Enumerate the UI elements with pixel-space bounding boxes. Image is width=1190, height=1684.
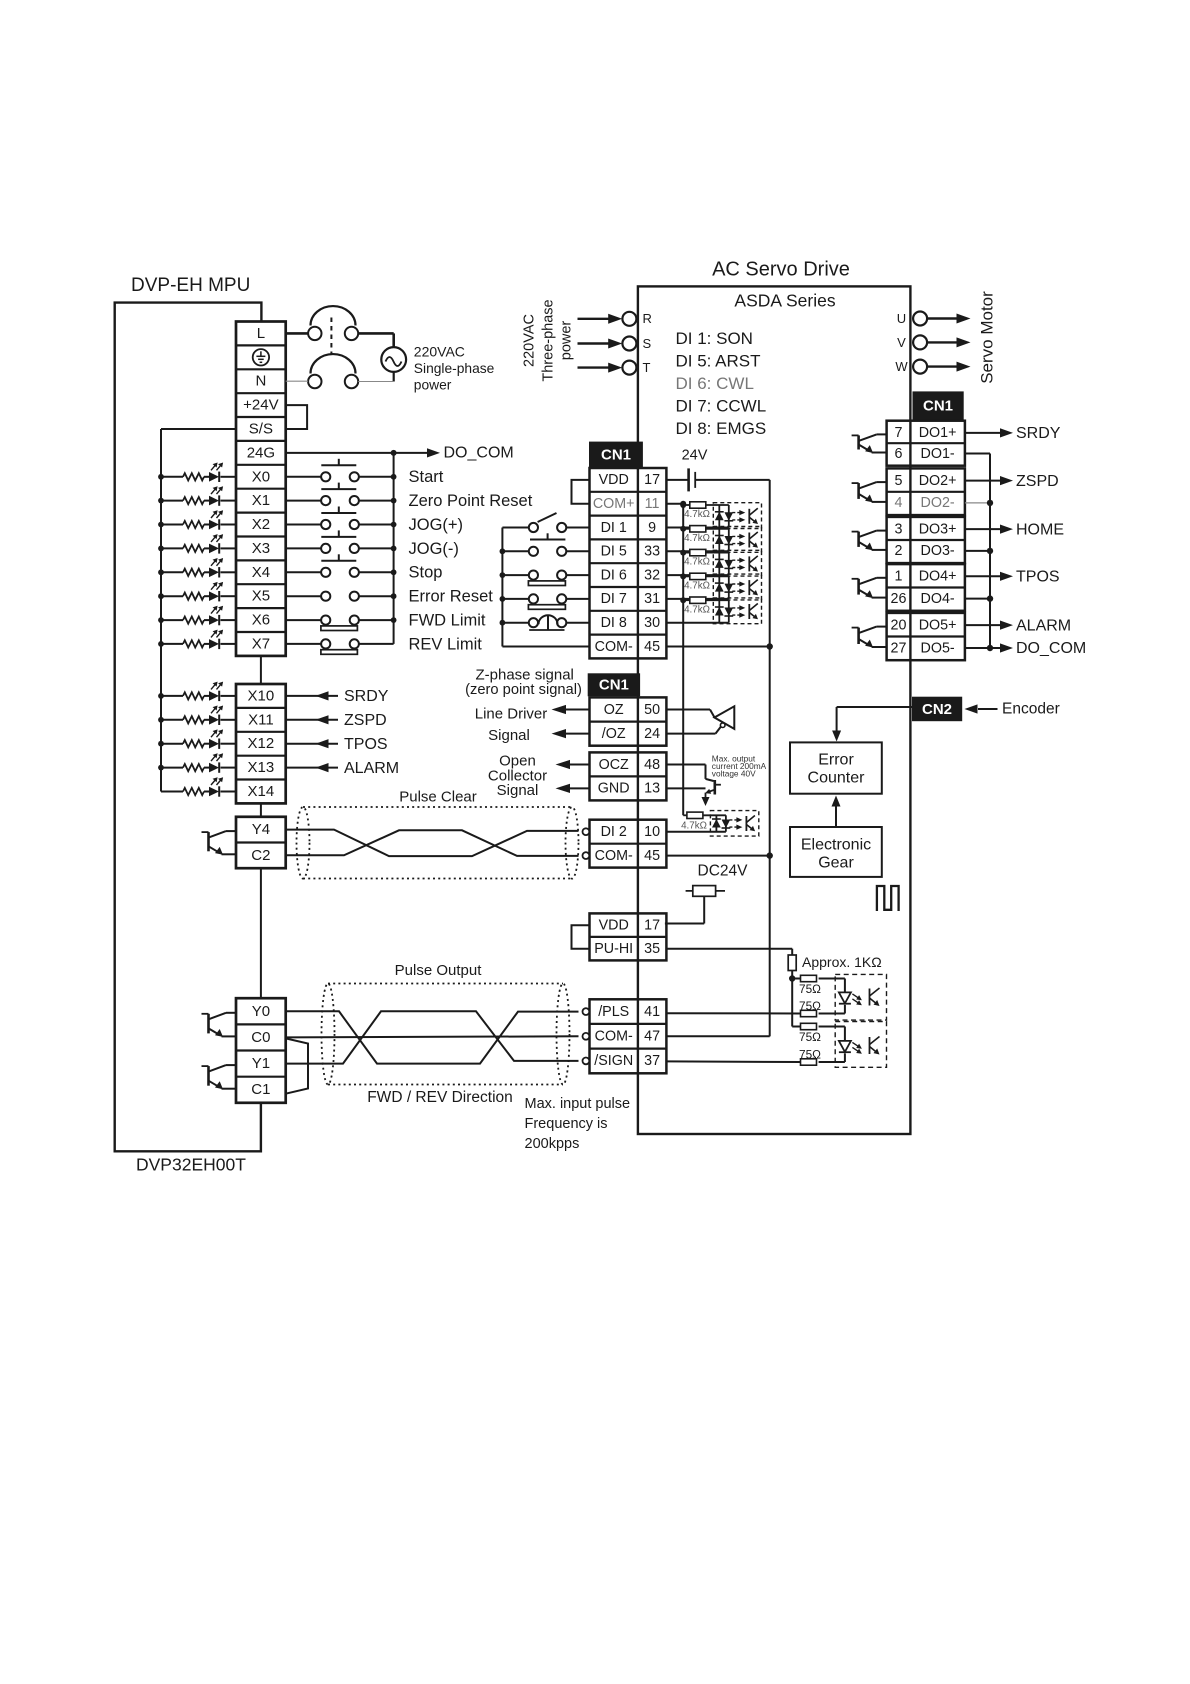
svg-text:/PLS: /PLS: [598, 1004, 629, 1020]
battery 24V symbol: [666, 468, 769, 491]
svg-text:Single-phase: Single-phase: [414, 361, 495, 376]
signal input ALARM to X13: [286, 760, 399, 777]
svg-text:X11: X11: [248, 711, 274, 728]
shield Pulse Clear cable: [297, 807, 579, 879]
signal output HOME: [965, 521, 1064, 538]
switch contact DI 6: [500, 571, 590, 586]
twisted pair wire Y4 to DI2: [286, 830, 579, 857]
pushbutton switch X1 (Zero Point Reset): [286, 483, 397, 506]
wire COM-45 lower to bus: [666, 855, 769, 857]
svg-text:(zero point signal): (zero point signal): [465, 682, 582, 698]
svg-text:Y1: Y1: [252, 1055, 270, 1072]
signal input TPOS to X12: [286, 736, 388, 753]
svg-text:S: S: [643, 336, 652, 351]
svg-text:9: 9: [648, 520, 656, 536]
svg-text:4: 4: [895, 495, 903, 511]
svg-text:AC Servo Drive: AC Servo Drive: [712, 258, 850, 280]
wire N to breaker (faint): [286, 380, 308, 382]
label JOG(+): [409, 516, 464, 534]
svg-text:33: 33: [644, 544, 660, 560]
svg-text:DO4-: DO4-: [921, 591, 955, 607]
svg-text:17: 17: [644, 472, 660, 488]
svg-text:Max. input pulse: Max. input pulse: [525, 1096, 631, 1112]
svg-text:75Ω: 75Ω: [799, 1047, 821, 1061]
svg-text:6: 6: [895, 446, 903, 462]
svg-text:Approx. 1KΩ: Approx. 1KΩ: [802, 954, 882, 970]
resistor R-75 (d): [666, 1047, 821, 1065]
svg-text:45: 45: [644, 639, 660, 655]
svg-text:DO_COM: DO_COM: [1016, 640, 1086, 657]
optocoupler LED SIGN: [839, 1041, 862, 1054]
svg-text:Stop: Stop: [409, 564, 443, 582]
net DO_COM from 24G: [286, 445, 514, 462]
label 220VAC Single-phase power: [414, 344, 495, 393]
wire DO3- to DO_COM bus: [965, 548, 993, 554]
svg-text:4.7kΩ: 4.7kΩ: [684, 533, 710, 544]
svg-text:45: 45: [644, 848, 660, 864]
wire AC source to N (faint): [358, 372, 394, 382]
resistor R-75 (b): [666, 999, 821, 1017]
svg-text:50: 50: [644, 702, 660, 718]
svg-text:DI 1: DI 1: [601, 520, 627, 536]
svg-text:75Ω: 75Ω: [799, 982, 821, 996]
label FWD Limit: [409, 611, 486, 629]
svg-text:Zero Point Reset: Zero Point Reset: [409, 492, 533, 510]
svg-text:ALARM: ALARM: [344, 760, 399, 777]
pushbutton switch X3 (JOG(-)): [286, 530, 397, 553]
transistor Q-Y1 open collector: [202, 1065, 237, 1089]
pushbutton switch X5 (Error Reset): [286, 592, 397, 601]
signal output SRDY: [965, 425, 1061, 442]
label Z-phase signal: [465, 667, 582, 699]
block Electronic Gear: [790, 827, 882, 877]
wire CN2 to Error Counter: [832, 707, 912, 742]
connector CN1 label (input side): [590, 442, 643, 467]
svg-text:220VAC: 220VAC: [521, 314, 537, 367]
twisted pair wire C2 to COM-: [286, 830, 579, 856]
wire DO5- to DO_COM bus: [965, 645, 993, 651]
optocoupler input DI 1 with 4.7kΩ resistor: [666, 502, 761, 529]
power input terminal R: [578, 311, 652, 326]
label DC24V: [698, 863, 749, 880]
transistor Q-DO2: [852, 482, 887, 502]
svg-text:X4: X4: [252, 564, 270, 581]
AC Servo Drive title: [712, 258, 850, 280]
svg-text:/SIGN: /SIGN: [594, 1053, 633, 1069]
svg-text:X10: X10: [248, 687, 275, 704]
svg-text:DO3+: DO3+: [919, 521, 957, 537]
svg-text:REV Limit: REV Limit: [409, 635, 483, 653]
svg-text:41: 41: [644, 1004, 660, 1020]
svg-text:COM-: COM-: [595, 848, 633, 864]
transistor Q-Y4 open collector: [202, 831, 237, 855]
svg-text:30: 30: [644, 615, 660, 631]
svg-text:DI 6: DI 6: [601, 567, 627, 583]
twisted pair wire Y1 to /SIGN: [286, 1011, 579, 1063]
svg-text:U: U: [897, 311, 906, 326]
connector CN1 pins 1 DO4+ / 26 DO4-: [887, 564, 965, 611]
PLC title DVP-EH MPU: [131, 275, 250, 296]
label Max. output current 200mA voltage 40V: [712, 753, 767, 778]
svg-text:DI 8: EMGS: DI 8: EMGS: [676, 419, 767, 438]
connector CN1 pin table OCZ 48 / GND 13: [590, 752, 667, 800]
svg-text:GND: GND: [598, 781, 630, 797]
terminal block X10-X14: [236, 684, 286, 803]
wire COM- 45 to bus: [666, 646, 769, 648]
input LED+resistor X14: [161, 777, 236, 797]
svg-text:T: T: [643, 360, 651, 375]
pushbutton switch X6 (FWD Limit): [286, 616, 397, 631]
svg-text:power: power: [558, 321, 574, 361]
transistor Q-DO5: [852, 627, 887, 648]
transistor Q-DO3: [852, 531, 887, 551]
svg-text:HOME: HOME: [1016, 521, 1064, 538]
svg-text:DO1-: DO1-: [921, 446, 955, 462]
resistor R-75 (c): [799, 1023, 845, 1044]
breaker arc bottom: [311, 354, 356, 373]
input LED+resistor X1: [158, 486, 236, 506]
optocoupler LED PLS: [839, 992, 862, 1005]
svg-text:4.7kΩ: 4.7kΩ: [684, 509, 710, 520]
svg-text:SRDY: SRDY: [1016, 425, 1061, 442]
label Start: [409, 468, 444, 486]
svg-text:COM+: COM+: [593, 496, 635, 512]
transistor Q-OCZ: [666, 765, 721, 795]
arrow Open Collector OCZ: [556, 760, 590, 769]
arrow Electronic Gear to Error Counter: [832, 796, 841, 828]
svg-text:X7: X7: [252, 635, 270, 652]
breaker arc top: [311, 306, 356, 325]
power input terminal T: [578, 360, 651, 375]
pushbutton switch X0 (Start): [286, 459, 397, 482]
svg-text:PU-HI: PU-HI: [594, 941, 633, 957]
AC source 220VAC single-phase: [381, 347, 406, 372]
line driver buffer U-LD: [666, 706, 734, 733]
wire DO4- to DO_COM bus: [965, 595, 993, 601]
label Line Driver Signal: [475, 705, 548, 744]
svg-text:X6: X6: [252, 612, 270, 629]
signal output TPOS: [965, 569, 1060, 586]
pushbutton switch X4 (Stop): [286, 554, 397, 577]
svg-text:SRDY: SRDY: [344, 688, 389, 705]
wire terminal-block interconnects: [260, 656, 262, 998]
wire L to breaker: [286, 332, 308, 335]
svg-text:Pulse Clear: Pulse Clear: [399, 788, 477, 805]
connector CN1 pin table DI2 10 / COM- 45: [583, 820, 667, 868]
svg-text:7: 7: [895, 425, 903, 441]
PLC model label DVP32EH00T: [136, 1154, 246, 1174]
svg-text:Pulse Output: Pulse Output: [395, 962, 483, 979]
svg-text:32: 32: [644, 567, 660, 583]
svg-text:X13: X13: [248, 759, 275, 776]
svg-text:Signal: Signal: [497, 782, 539, 799]
junction 24V bus at COM-45 (CN1 upper): [767, 643, 773, 649]
connector CN1 label (Z-phase): [588, 674, 639, 696]
power input terminal S: [578, 336, 652, 351]
junction 24V bus at COM-45 (lower): [767, 852, 773, 858]
label Stop: [409, 564, 443, 582]
svg-text:17: 17: [644, 917, 660, 933]
transistor Q-Y0 open collector: [202, 1013, 237, 1037]
junction below 1k resistor: [789, 971, 795, 982]
connector CN1 pins 20 DO5+ / 27 DO5-: [887, 613, 965, 660]
svg-text:200kpps: 200kpps: [525, 1136, 580, 1152]
svg-text:2: 2: [895, 543, 903, 559]
pushbutton switch X2 (JOG(+)): [286, 507, 397, 530]
svg-text:24G: 24G: [247, 444, 275, 461]
breaker contact circles bottom: [308, 375, 358, 388]
label REV Limit: [409, 635, 483, 653]
resistor R-75 (a): [792, 975, 845, 996]
svg-text:47: 47: [644, 1029, 660, 1045]
switch contact DI 7: [500, 594, 590, 609]
signal output ALARM: [965, 617, 1071, 634]
connector CN1 pins 5 DO2+ / 4 DO2-: [887, 468, 965, 515]
svg-text:ASDA Series: ASDA Series: [734, 291, 835, 311]
svg-text:DI 6: CWL: DI 6: CWL: [676, 374, 754, 393]
optocoupler box PLS: [835, 974, 886, 1020]
label Open Collector Signal: [488, 752, 547, 799]
input LED+resistor X12: [158, 729, 236, 749]
svg-text:DC24V: DC24V: [698, 863, 749, 880]
svg-text:DI 7: CCWL: DI 7: CCWL: [676, 396, 767, 415]
breaker contact circles top: [308, 327, 358, 340]
input LED+resistor X4: [158, 558, 236, 578]
svg-text:DO3-: DO3-: [921, 543, 955, 559]
svg-text:DO5-: DO5-: [921, 640, 955, 656]
wire S/S common bus: [161, 429, 236, 792]
pushbutton switch X7 (REV Limit): [286, 639, 394, 654]
svg-text:CN2: CN2: [922, 701, 952, 718]
terminal block Y0/C0/Y1/C1: [236, 998, 286, 1103]
label Error Reset: [409, 588, 494, 606]
svg-text:37: 37: [644, 1053, 660, 1069]
svg-text:X3: X3: [252, 540, 270, 557]
svg-text:R: R: [643, 311, 652, 326]
wire COM-47 to 24V bus: [666, 1035, 769, 1037]
breaker dashed link: [330, 318, 332, 355]
svg-text:DO2-: DO2-: [921, 495, 955, 511]
signal input SRDY to X10: [286, 688, 389, 705]
svg-text:4.7kΩ: 4.7kΩ: [681, 820, 707, 831]
motor output terminal U: [897, 311, 971, 326]
transistor Q-DO1: [852, 434, 887, 453]
motor output terminal V: [897, 335, 970, 350]
svg-text:4.7kΩ: 4.7kΩ: [684, 604, 710, 615]
svg-text:TPOS: TPOS: [344, 736, 388, 753]
input LED+resistor X2: [158, 510, 236, 530]
svg-text:N: N: [255, 373, 266, 390]
DI function assignment list: [676, 329, 767, 438]
svg-text:COM-: COM-: [595, 1029, 633, 1045]
DO_COM bus (right): [989, 454, 991, 649]
svg-text:C1: C1: [251, 1081, 270, 1098]
svg-text:DI 1: SON: DI 1: SON: [676, 329, 753, 348]
input LED+resistor X5: [158, 582, 236, 602]
wire C1 tied to C0: [286, 1038, 308, 1093]
svg-text:4.7kΩ: 4.7kΩ: [684, 557, 710, 568]
svg-text:Z-phase signal: Z-phase signal: [476, 667, 574, 684]
resistor R-1k (Approx. 1KΩ): [788, 954, 882, 970]
svg-text:ALARM: ALARM: [1016, 617, 1071, 634]
label 220VAC Three-phase power (rotated): [521, 299, 574, 381]
connector CN1 pins 7 DO1+ / 6 DO1-: [887, 421, 965, 466]
svg-text:X12: X12: [248, 735, 275, 752]
svg-text:4.7kΩ: 4.7kΩ: [684, 580, 710, 591]
pulse train symbol: [877, 886, 899, 911]
svg-text:VDD: VDD: [599, 917, 629, 933]
svg-text:/OZ: /OZ: [602, 726, 626, 742]
svg-text:Start: Start: [409, 468, 444, 486]
svg-text:X2: X2: [252, 516, 270, 533]
connector CN1 pin table /PLS 41 / COM- 47 / /SIGN 37: [583, 999, 667, 1073]
svg-text:DO2+: DO2+: [919, 473, 957, 489]
label 24V: [682, 447, 708, 463]
connector CN1 label (output side): [913, 392, 963, 420]
svg-text:5: 5: [895, 473, 903, 489]
wire DO1- to DO_COM bus: [965, 453, 990, 455]
svg-text:Error Reset: Error Reset: [409, 588, 494, 606]
svg-text:OCZ: OCZ: [599, 757, 629, 773]
svg-text:DO1+: DO1+: [919, 425, 957, 441]
wire 24V return bus (right): [769, 480, 771, 1037]
svg-text:24V: 24V: [682, 447, 708, 463]
wire +24V to S/S jumper: [286, 405, 307, 429]
wire DO2- to DO_COM bus: [965, 500, 993, 506]
shield Pulse Output cable: [322, 984, 570, 1085]
svg-text:220VAC: 220VAC: [414, 344, 465, 360]
svg-text:VDD: VDD: [599, 472, 629, 488]
svg-text:Frequency is: Frequency is: [525, 1116, 608, 1132]
signal output DO_COM: [990, 640, 1086, 657]
label Pulse Clear: [399, 788, 477, 805]
connector CN1 pin table VDD/COM+/DI1-DI8/COM-: [590, 468, 667, 658]
label Servo Motor (rotated): [977, 291, 996, 384]
svg-text:Electronic: Electronic: [801, 837, 871, 854]
svg-text:COM-: COM-: [595, 639, 633, 655]
terminal block L/N/24V/S-S/24G/X0-X7: [236, 322, 286, 656]
svg-text:Y0: Y0: [252, 1003, 270, 1020]
svg-text:31: 31: [644, 591, 660, 607]
svg-text:48: 48: [644, 757, 660, 773]
connector CN2 label: [913, 697, 962, 721]
arrow Line Driver OZ: [552, 705, 590, 714]
svg-text:C2: C2: [251, 847, 270, 864]
label Max. input pulse Frequency is 200kpps: [525, 1096, 631, 1152]
arrow OCZ output current: [702, 793, 710, 806]
svg-text:W: W: [895, 359, 908, 374]
svg-text:voltage 40V: voltage 40V: [712, 769, 756, 779]
svg-text:Gear: Gear: [818, 855, 854, 872]
input LED+resistor X7: [158, 630, 236, 650]
svg-text:Encoder: Encoder: [1002, 701, 1060, 718]
svg-text:ZSPD: ZSPD: [1016, 473, 1059, 490]
svg-text:DO4+: DO4+: [919, 569, 957, 585]
svg-text:X14: X14: [248, 783, 275, 800]
svg-text:FWD / REV Direction: FWD / REV Direction: [367, 1089, 513, 1106]
wire 24V opto bus: [666, 501, 686, 816]
wire C0 to COM-47: [286, 1036, 579, 1037]
label ASDA Series: [734, 291, 835, 311]
svg-text:DI 8: DI 8: [601, 615, 627, 631]
svg-text:OZ: OZ: [604, 702, 624, 718]
svg-text:ZSPD: ZSPD: [344, 712, 387, 729]
svg-text:75Ω: 75Ω: [799, 1030, 821, 1044]
svg-text:TPOS: TPOS: [1016, 569, 1060, 586]
switch contact DI 1: [502, 513, 589, 540]
optocoupler input DI 7 with 4.7kΩ resistor: [666, 573, 761, 600]
label Pulse Output: [395, 962, 483, 979]
label Zero Point Reset: [409, 492, 533, 510]
svg-text:Counter: Counter: [808, 770, 866, 787]
svg-text:26: 26: [891, 591, 907, 607]
servo drive box: [638, 286, 911, 1134]
PLC outer enclosure box: [115, 303, 262, 1152]
svg-text:24: 24: [644, 726, 660, 742]
optocoupler box SIGN: [835, 1022, 886, 1068]
svg-text:DVP-EH MPU: DVP-EH MPU: [131, 275, 250, 296]
svg-text:CN1: CN1: [599, 677, 629, 694]
wire VDD-PUHI jumper: [572, 925, 590, 949]
wire LED PLS to 75Ω (b): [819, 1005, 845, 1014]
wire breaker to AC source: [358, 333, 394, 347]
svg-text:DI 7: DI 7: [601, 591, 627, 607]
svg-text:11: 11: [645, 496, 660, 512]
svg-text:JOG(+): JOG(+): [409, 516, 464, 534]
label JOG(-): [409, 540, 459, 558]
wire LED SIGN to 75Ω (d): [819, 1053, 845, 1062]
input LED+resistor X10: [158, 682, 236, 702]
block Error Counter: [790, 742, 882, 793]
svg-text:V: V: [897, 335, 906, 350]
wire 1k junction down to 75Ω (c): [792, 979, 800, 1027]
optocoupler input DI2 with 4.7kΩ resistor: [666, 811, 758, 837]
switch contact DI 8: [500, 615, 590, 630]
svg-text:10: 10: [644, 824, 660, 840]
svg-text:Three-phase: Three-phase: [540, 299, 556, 381]
svg-text:L: L: [257, 325, 265, 342]
svg-text:75Ω: 75Ω: [799, 999, 821, 1013]
input LED+resistor X13: [158, 753, 236, 773]
optocoupler input DI 6 with 4.7kΩ resistor: [666, 549, 761, 576]
input LED+resistor X0: [158, 463, 236, 483]
svg-text:Error: Error: [818, 752, 854, 769]
wire VDD to COM+ jumper: [572, 480, 590, 504]
svg-text:DO5+: DO5+: [919, 617, 957, 633]
optocoupler input DI 8 with 4.7kΩ resistor: [666, 597, 761, 624]
connector CN1 pin table OZ 50 //OZ 24: [590, 697, 667, 745]
svg-text:power: power: [414, 377, 452, 392]
input LED+resistor X6: [158, 606, 236, 626]
svg-text:35: 35: [644, 941, 660, 957]
svg-text:X1: X1: [252, 492, 270, 509]
label FWD / REV Direction: [367, 1089, 513, 1106]
svg-text:DI 2: DI 2: [601, 824, 627, 840]
svg-text:DI 5: DI 5: [601, 544, 627, 560]
arrow Open Collector GND: [556, 784, 590, 793]
wire PU-HI 35 to 1k resistor: [666, 949, 792, 955]
connector CN1 pins 3 DO3+ / 2 DO3-: [887, 517, 965, 563]
svg-text:27: 27: [891, 640, 907, 656]
svg-text:JOG(-): JOG(-): [409, 540, 459, 558]
svg-text:Servo Motor: Servo Motor: [977, 291, 996, 384]
optocoupler input DI 5 with 4.7kΩ resistor: [666, 526, 761, 553]
svg-text:20: 20: [891, 617, 907, 633]
svg-text:13: 13: [644, 781, 660, 797]
wire GND 13: [666, 787, 705, 789]
twisted pair wire Y0 to /PLS: [286, 1011, 579, 1063]
switch common bus (right): [393, 453, 395, 644]
